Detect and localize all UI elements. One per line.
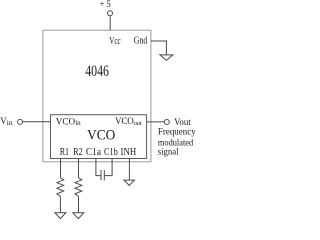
wire C1a pin down bbox=[96, 159, 101, 176]
svg-text:Gnd: Gnd bbox=[134, 36, 148, 47]
input terminal circle bbox=[18, 119, 23, 124]
svg-text:+ 5: + 5 bbox=[100, 0, 111, 10]
svg-text:Vin: Vin bbox=[0, 116, 13, 127]
svg-text:VCOout: VCOout bbox=[115, 116, 142, 127]
wire R1 to ground bbox=[59, 196, 61, 212]
svg-text:VCOin: VCOin bbox=[56, 116, 81, 127]
svg-text:C1a: C1a bbox=[86, 146, 101, 158]
wire INH pin down bbox=[128, 159, 130, 181]
svg-text:R1: R1 bbox=[60, 146, 69, 158]
svg-text:signal: signal bbox=[158, 148, 179, 158]
wire VCOout to Vout bbox=[147, 121, 165, 123]
svg-text:C1b: C1b bbox=[104, 146, 118, 158]
wire R1 pin down bbox=[60, 159, 62, 178]
wire Gnd to ground bbox=[151, 41, 167, 55]
resistor R2 bbox=[75, 178, 82, 197]
resistor R1 bbox=[57, 178, 64, 197]
svg-text:INH: INH bbox=[121, 146, 137, 158]
ground (R1) bbox=[55, 213, 66, 219]
output terminal circle bbox=[164, 120, 169, 125]
svg-text:R2: R2 bbox=[73, 146, 83, 158]
svg-text:Vcc: Vcc bbox=[109, 36, 121, 47]
wire R2 pin down bbox=[78, 159, 80, 178]
ground (R2) bbox=[73, 213, 84, 219]
supply terminal circle bbox=[108, 11, 113, 16]
svg-text:4046: 4046 bbox=[85, 63, 109, 80]
VCO inner box bbox=[51, 115, 147, 159]
wire C1b pin down bbox=[104, 159, 112, 176]
IC outer box 4046 bbox=[43, 30, 151, 162]
wire Vin to VCOin bbox=[23, 121, 51, 123]
wire R2 to ground bbox=[78, 196, 80, 212]
svg-text:VCO: VCO bbox=[87, 128, 115, 144]
svg-text:Frequency: Frequency bbox=[158, 128, 196, 138]
wire +5 to Vcc pin bbox=[109, 16, 111, 30]
svg-text:Vout: Vout bbox=[174, 118, 191, 128]
ground (Gnd pin) bbox=[160, 55, 173, 61]
ground (INH) bbox=[124, 180, 134, 185]
capacitor C1 bbox=[100, 170, 102, 180]
